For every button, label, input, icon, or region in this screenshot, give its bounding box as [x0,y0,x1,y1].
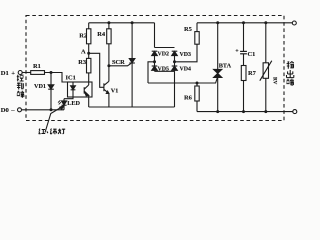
svg-text:V1: V1 [111,88,119,95]
svg-text:R1: R1 [33,63,41,70]
top bus right segment [197,22,292,24]
svg-text:C1: C1 [248,51,256,58]
wire AC1 to gate line [148,62,155,83]
wire bus corner down to bridge top [154,23,156,48]
junction BTA top [216,21,219,24]
junction SCR top [131,21,134,24]
wire bus corner down to R2 [88,23,90,29]
wire node A to V1 base [89,53,104,87]
varistor RV [260,23,272,112]
IC1 phototransistor [84,82,89,97]
svg-text:R5: R5 [184,26,192,33]
resistor R7 [241,66,246,81]
diode VD1 [48,73,54,110]
triac gate line [148,78,217,83]
bottom output line [197,111,293,113]
svg-text:+: + [235,49,239,55]
svg-text:VD5: VD5 [158,66,170,72]
top bus left segment [89,22,155,24]
hanzi 灯 of 红、绿灯 [58,129,65,134]
terminal D0 [18,108,22,112]
hanzi 红 of 红、绿灯 [39,129,46,134]
wire SCR gate [109,63,131,65]
junction BTA bottom [216,110,219,113]
wire R2 to node A [88,44,90,59]
wire bridge bottom to ground bus [174,71,176,107]
hanzi 端 of 控制端 [17,91,24,98]
internal ground bus [89,106,175,108]
svg-text:R4: R4 [97,31,106,38]
svg-text:R2: R2 [79,32,87,39]
diode VD4 [172,62,178,72]
svg-text:RV: RV [272,77,278,85]
wire V1 emitter to ground bus [108,93,110,107]
svg-text:R7: R7 [248,70,257,77]
junction RV top [264,21,267,24]
junction R7 bottom [242,110,245,113]
junction bridge AC2 [173,60,176,63]
svg-text:VD3: VD3 [180,52,192,58]
resistor R3 [87,58,91,73]
wire R3 to IC1 collector [88,73,90,82]
hanzi 绿 of 红、绿灯 [50,129,57,135]
resistor R4 [107,23,111,44]
wire R6 to bottom line [196,101,198,112]
svg-text:VD4: VD4 [180,67,192,73]
svg-text:SCR: SCR [112,59,125,66]
bridge top tie [155,47,175,49]
wire R4 to V1 collector [108,44,110,82]
svg-text:D1: D1 [1,70,9,77]
indicator LED [58,99,67,110]
hanzi 出 of 输出端 [287,70,294,78]
node junction VD1-D0 [50,108,53,111]
svg-text:VD1: VD1 [34,83,46,90]
punctuation 、 [47,131,48,133]
resistor R6 [195,83,199,101]
thyristor SCR [129,23,135,107]
terminal output top [292,21,296,25]
svg-text:VD2: VD2 [158,52,170,58]
hanzi 端 of 输出端 [286,79,293,86]
optocoupler IC1 box [68,82,93,97]
node A junction [87,52,90,55]
svg-text:BTA: BTA [219,63,232,70]
svg-text:–: – [10,107,15,114]
node junction on D1 wire [50,71,53,74]
resistor R5 [195,23,199,44]
junction bridge AC1 [153,60,156,63]
wire R7 to bottom line [243,81,245,112]
junction RV bottom [264,110,267,113]
arrow to indicator LED [45,106,64,133]
junction R4 top [107,21,110,24]
terminal D1 [18,71,22,75]
svg-text:D0: D0 [1,107,10,114]
wire IC1 cathode to LED [64,97,73,99]
IC1 internal LED [71,82,76,97]
svg-text:R6: R6 [184,94,193,101]
hanzi 控 of 控制端 [17,75,24,82]
svg-text:R3: R3 [78,59,86,66]
triac BTA [214,23,222,112]
svg-text:LED: LED [67,100,80,107]
resistor R2 [87,29,91,44]
diode VD2 [152,51,158,62]
wire AC2 to R5 bottom [175,44,198,62]
capacitor C1 [240,23,247,66]
bridge bottom tie [155,70,175,72]
svg-text:A: A [81,49,86,56]
wire D0 [22,109,65,111]
wire D1 to R1 [22,72,31,74]
resistor R1 [31,71,45,75]
junction C1 top [242,21,245,24]
svg-text:IC1: IC1 [66,74,76,81]
transistor V1 [104,81,109,93]
diode VD5 [152,62,158,72]
hanzi 制 of 控制端 [17,83,24,90]
diode VD3 [172,51,178,62]
junction SCR gate tap [107,64,110,67]
hanzi 输 of 输出端 [287,62,294,69]
dashed enclosure border [26,16,284,121]
wire R1 to IC1 corner [45,73,68,83]
junction R6 top [196,82,199,85]
wire IC1 emitter to ground bus [88,97,90,107]
svg-text:+: + [11,70,15,77]
terminal output bottom [293,110,297,114]
